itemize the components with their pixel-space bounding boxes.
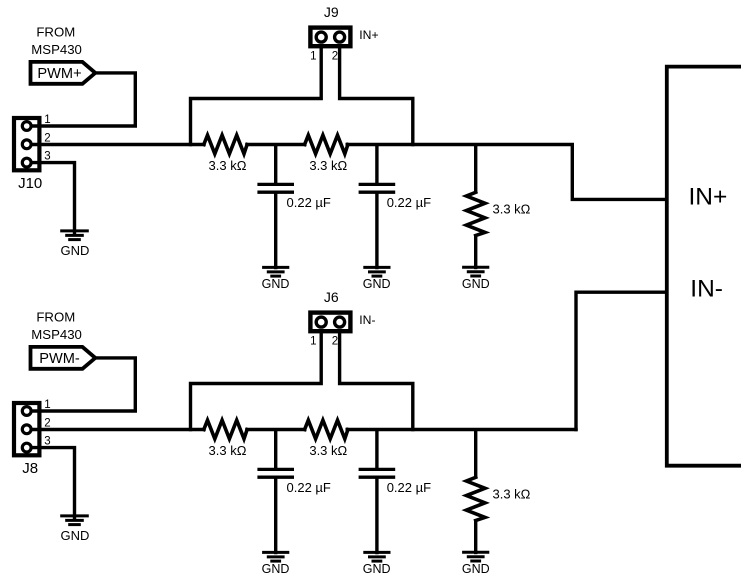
- wire PWM- flag to J8 pin 1: [31, 358, 135, 411]
- svg-text:PWM-: PWM-: [39, 351, 80, 367]
- wire between series resistors (node at first cap): [247, 428, 305, 431]
- svg-text:GND: GND: [262, 277, 290, 291]
- svg-text:FROM: FROM: [36, 310, 75, 325]
- svg-text:GND: GND: [462, 277, 490, 291]
- svg-text:0.22 µF: 0.22 µF: [287, 195, 331, 210]
- svg-text:GND: GND: [363, 277, 391, 291]
- svg-text:2: 2: [44, 133, 50, 145]
- jumper J9 (2-pin): [310, 28, 350, 47]
- svg-text:0.22 µF: 0.22 µF: [287, 480, 331, 495]
- svg-text:1: 1: [310, 336, 316, 348]
- svg-text:IN+: IN+: [359, 28, 378, 42]
- wire resistor to IN+ pin of module: [347, 145, 667, 200]
- ground (shunt resistor): [462, 266, 489, 269]
- svg-text:GND: GND: [61, 528, 90, 543]
- resistor 3.3 kΩ series 2 (top): [305, 135, 348, 154]
- wire between series resistors (node at first cap): [247, 143, 305, 146]
- ground (first cap): [262, 551, 289, 554]
- resistor 3.3 kΩ shunt (bottom): [474, 430, 477, 479]
- ground (J10): [60, 229, 89, 232]
- svg-text:GND: GND: [363, 562, 391, 576]
- svg-text:FROM: FROM: [36, 25, 75, 40]
- svg-text:J8: J8: [22, 460, 38, 477]
- wire J8 pin 3 to ground: [27, 448, 75, 518]
- connector J8 (3-pin header): [14, 403, 39, 455]
- svg-text:MSP430: MSP430: [31, 327, 82, 342]
- svg-text:3.3 kΩ: 3.3 kΩ: [209, 158, 247, 173]
- wire up to IN- pin: [576, 292, 667, 429]
- svg-text:IN+: IN+: [689, 183, 728, 210]
- module box (amplifier input, right edge): [667, 67, 741, 466]
- capacitor 0.22 µF second (top): [375, 145, 378, 184]
- svg-text:0.22 µF: 0.22 µF: [387, 480, 431, 495]
- ground (shunt resistor): [462, 551, 489, 554]
- wire bypass J6 pin 2: [340, 329, 413, 430]
- svg-text:3: 3: [44, 151, 50, 163]
- capacitor 0.22 µF second (bottom): [375, 430, 378, 469]
- svg-text:GND: GND: [61, 243, 90, 258]
- jumper J6 (2-pin): [310, 313, 350, 332]
- off-page flag PWM+: [31, 62, 96, 84]
- svg-text:3.3 kΩ: 3.3 kΩ: [493, 202, 531, 217]
- resistor 3.3 kΩ shunt (top): [474, 145, 477, 194]
- svg-text:3: 3: [44, 436, 50, 448]
- svg-text:GND: GND: [462, 562, 490, 576]
- wire resistor to IN- pin of module: [347, 428, 576, 431]
- off-page flag PWM-: [31, 347, 96, 369]
- ground (J8): [60, 514, 89, 517]
- svg-text:J9: J9: [324, 4, 339, 20]
- svg-text:GND: GND: [262, 562, 290, 576]
- resistor 3.3 kΩ series 1 (top): [204, 135, 247, 154]
- svg-text:MSP430: MSP430: [31, 42, 82, 57]
- svg-text:1: 1: [310, 51, 316, 63]
- svg-text:PWM+: PWM+: [37, 66, 81, 82]
- ground (first cap): [262, 266, 289, 269]
- svg-text:3.3 kΩ: 3.3 kΩ: [493, 487, 531, 502]
- svg-text:J6: J6: [324, 289, 339, 305]
- resistor 3.3 kΩ series 1 (bottom): [204, 420, 247, 439]
- ground (second cap): [363, 266, 390, 269]
- svg-text:3.3 kΩ: 3.3 kΩ: [309, 443, 347, 458]
- ground (second cap): [363, 551, 390, 554]
- connector J10 (3-pin header): [14, 118, 39, 170]
- wire bypass J6 pin 1: [191, 329, 322, 430]
- svg-text:IN-: IN-: [359, 313, 375, 327]
- svg-text:3.3 kΩ: 3.3 kΩ: [209, 443, 247, 458]
- wire bypass J9 pin 1: [191, 44, 322, 145]
- svg-text:1: 1: [44, 399, 50, 411]
- wire bypass J9 pin 2: [340, 44, 413, 145]
- resistor 3.3 kΩ series 2 (bottom): [305, 420, 348, 439]
- svg-text:3.3 kΩ: 3.3 kΩ: [309, 158, 347, 173]
- svg-text:1: 1: [44, 114, 50, 126]
- svg-text:2: 2: [44, 418, 50, 430]
- svg-text:J10: J10: [18, 175, 42, 192]
- wire PWM+ flag to J10 pin 1: [31, 73, 135, 126]
- svg-text:2: 2: [332, 51, 338, 63]
- svg-text:2: 2: [332, 336, 338, 348]
- svg-text:IN-: IN-: [690, 276, 723, 303]
- capacitor 0.22 µF first (bottom): [274, 430, 277, 469]
- wire J10 pin 2 main net to resistor: [27, 143, 204, 146]
- wire J10 pin 3 to ground: [27, 163, 75, 233]
- wire J8 pin 2 main net to resistor: [27, 428, 204, 431]
- capacitor 0.22 µF first (top): [274, 145, 277, 184]
- svg-text:0.22 µF: 0.22 µF: [387, 195, 431, 210]
